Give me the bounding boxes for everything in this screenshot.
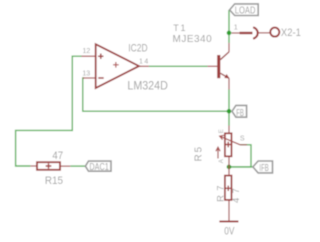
svg-text:A: A	[219, 159, 225, 163]
svg-text:12: 12	[83, 48, 91, 55]
svg-text:LM324D: LM324D	[127, 80, 167, 92]
svg-text:14: 14	[139, 58, 150, 65]
svg-text:R15: R15	[45, 176, 63, 188]
svg-text:LOAD: LOAD	[235, 5, 256, 16]
svg-text:47: 47	[231, 184, 242, 203]
svg-text:DAC1: DAC1	[89, 161, 108, 173]
svg-text:E: E	[219, 129, 225, 133]
svg-text:X2-1: X2-1	[281, 27, 301, 39]
svg-text:T1: T1	[173, 23, 187, 33]
svg-text:0V: 0V	[224, 225, 235, 237]
svg-text:1: 1	[234, 23, 238, 32]
svg-text:13: 13	[82, 70, 90, 77]
svg-text:R7: R7	[215, 181, 226, 202]
svg-text:IFB: IFB	[259, 163, 269, 174]
svg-text:MJE340: MJE340	[173, 34, 213, 45]
svg-text:S: S	[240, 136, 245, 143]
svg-text:IC2D: IC2D	[128, 43, 147, 55]
svg-text:47: 47	[52, 150, 63, 162]
svg-text:FB: FB	[236, 107, 244, 118]
svg-text:R5: R5	[194, 145, 205, 161]
